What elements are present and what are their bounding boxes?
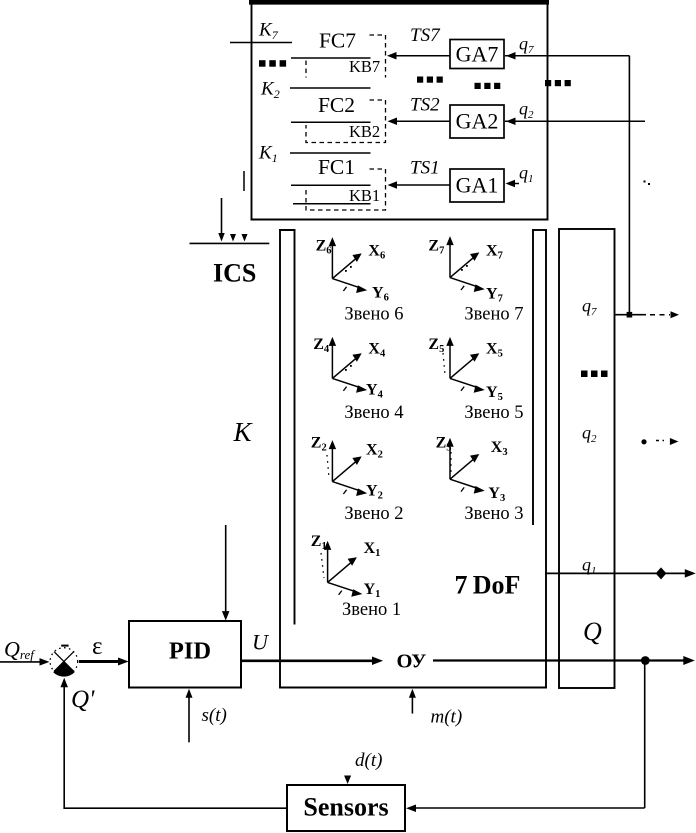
svg-text:ОУ: ОУ (397, 650, 427, 672)
specks right of q1 row (644, 181, 646, 183)
svg-text:K1: K1 (258, 143, 278, 166)
block PID (129, 621, 241, 688)
dashed box KB1 (306, 169, 386, 210)
svg-text:X5: X5 (486, 341, 503, 360)
scan artifact specks (345, 270, 347, 272)
svg-text:PID: PID (169, 637, 211, 664)
svg-text:Звено 4: Звено 4 (344, 403, 403, 423)
wire Q down to Sensors (644, 661, 646, 809)
svg-text:X4: X4 (368, 341, 386, 360)
frame axes Zveno 1 (324, 541, 363, 597)
svg-text:U: U (252, 630, 270, 655)
scan artifact dots (321, 553, 324, 578)
svg-text:Звено 3: Звено 3 (464, 504, 523, 524)
frame axes Zveno 5 (446, 337, 485, 393)
svg-text:K7: K7 (258, 20, 279, 43)
dots between GA7 and GA2 (475, 83, 481, 89)
svg-text:FC1: FC1 (318, 155, 355, 179)
svg-text:Z2: Z2 (311, 435, 327, 454)
frame axes Zveno 7 (446, 236, 485, 292)
svg-text:Звено 7: Звено 7 (464, 305, 523, 325)
wire q1 stub into GA1 (514, 183, 519, 185)
svg-text:Z4: Z4 (313, 336, 330, 355)
wire U: PID to OU (241, 659, 374, 662)
svg-text:FC2: FC2 (318, 93, 355, 117)
svg-text:KB1: KB1 (349, 186, 380, 205)
svg-text:X2: X2 (366, 442, 383, 461)
svg-text:TS7: TS7 (410, 25, 441, 46)
svg-text:Qref: Qref (4, 637, 36, 663)
dashed q2 arrow out (656, 440, 664, 442)
wire plant output Q (433, 659, 688, 661)
svg-text:KB7: KB7 (349, 57, 380, 76)
block GA1 (450, 169, 504, 202)
dashed box KB7 (370, 35, 386, 78)
svg-text:KB2: KB2 (349, 122, 380, 141)
svg-text:Y1: Y1 (364, 581, 381, 600)
block GA7 (450, 40, 504, 69)
scan artifact dots (443, 353, 445, 375)
svg-text:Sensors: Sensors (303, 793, 388, 822)
dots between TS7 and TS2 (417, 77, 423, 83)
svg-text:Звено 6: Звено 6 (344, 305, 403, 325)
svg-text:Y4: Y4 (366, 382, 384, 401)
dashed q7 arrow out (650, 314, 670, 316)
wire K2 (line under KB7) (290, 87, 371, 89)
frame axes Zveno 3 (446, 438, 485, 494)
line under FC2 (291, 121, 371, 123)
svg-text:GA2: GA2 (456, 109, 499, 134)
line under FC1 (291, 184, 371, 186)
svg-text:Z3: Z3 (436, 435, 452, 454)
svg-text:Q': Q' (71, 686, 95, 713)
svg-text:d(t): d(t) (355, 750, 382, 771)
line under FC7 (291, 57, 371, 59)
output bus box (559, 229, 615, 688)
tick mark below K1 (243, 171, 245, 191)
node Q branch dot (641, 656, 650, 665)
svg-text:Y5: Y5 (486, 384, 503, 403)
svg-text:Y3: Y3 (488, 485, 505, 504)
svg-text:Y7: Y7 (486, 286, 503, 305)
svg-text:Z7: Z7 (428, 238, 444, 257)
svg-text:GA7: GA7 (456, 42, 499, 67)
wire K down to PID (225, 525, 227, 612)
block Sensors (287, 785, 405, 831)
node q2 dot (641, 439, 646, 444)
svg-text:Z6: Z6 (316, 238, 332, 257)
wire m(t) into plant (411, 697, 413, 714)
svg-text:Y6: Y6 (372, 285, 389, 304)
svg-text:Q: Q (583, 617, 602, 646)
wire into Sensors right (415, 807, 645, 809)
svg-text:Z1: Z1 (311, 533, 327, 552)
svg-text:q1: q1 (519, 163, 534, 186)
wire q7 feedback up to GA7 (628, 56, 630, 315)
frame axes Zveno 6 (329, 237, 368, 293)
scan artifact dots (450, 452, 452, 476)
wire q1 out (545, 572, 689, 574)
wire K1 (line under KB2) (290, 152, 371, 154)
scan artifact specks (461, 269, 463, 271)
svg-text:q2: q2 (582, 423, 597, 446)
dots at right edge of box (545, 80, 551, 86)
wire s(t) into PID (188, 697, 190, 742)
svg-text:TS2: TS2 (410, 95, 440, 116)
svg-text:Звено 2: Звено 2 (344, 504, 403, 524)
dashed box KB2 (306, 100, 386, 143)
wire TS1: GA1 to KB1 (395, 184, 450, 186)
plant left channel (279, 230, 281, 688)
svg-text:GA1: GA1 (456, 173, 499, 198)
wire Sensors output left (63, 807, 287, 809)
wire TS7: GA7 to KB7 (395, 55, 450, 57)
wire Qref into summer (0, 661, 41, 663)
svg-text:Звено 5: Звено 5 (464, 403, 523, 423)
arrowheads into ICS (230, 234, 236, 242)
svg-text:K: K (233, 417, 254, 447)
wire q2 into GA2 (505, 120, 645, 122)
svg-text:Z5: Z5 (428, 336, 444, 355)
arrowhead d(t) into Sensors (344, 776, 351, 785)
line under KB1 (293, 203, 371, 205)
dots in bus (581, 371, 588, 378)
frame axes Zveno 2 (329, 440, 368, 496)
plant bottom edge (279, 687, 547, 689)
svg-text:m(t): m(t) (431, 707, 463, 728)
wire error into PID (79, 660, 120, 663)
dots below K7 (259, 60, 266, 66)
wire from bank down to ICS (221, 198, 223, 234)
minus sign at summer (61, 645, 68, 647)
wire q7 out of bus (616, 314, 647, 316)
wire K7 input (230, 42, 292, 44)
svg-text:ε: ε (92, 633, 103, 660)
summing junction (50, 648, 78, 676)
svg-text:X1: X1 (364, 540, 381, 559)
wire feedback up to summer (63, 680, 65, 808)
svg-text:FC7: FC7 (319, 29, 356, 53)
node q1 diamond (656, 567, 667, 579)
svg-text:Звено 1: Звено 1 (342, 600, 401, 620)
svg-text:X3: X3 (491, 439, 508, 458)
svg-text:X7: X7 (486, 243, 503, 262)
scan artifact dots (327, 455, 329, 478)
svg-text:TS1: TS1 (410, 158, 440, 179)
svg-text:s(t): s(t) (202, 705, 227, 726)
line over ICS (190, 242, 270, 244)
svg-text:K2: K2 (260, 79, 280, 102)
svg-text:q2: q2 (519, 99, 534, 122)
svg-text:Y2: Y2 (366, 483, 383, 502)
frame axes Zveno 4 (329, 337, 368, 393)
wire q7 into GA7 (505, 55, 630, 57)
block GA2 (450, 105, 504, 138)
svg-text:ICS: ICS (213, 259, 256, 288)
scan artifact specks (345, 369, 347, 371)
wire TS2: GA2 to KB2 (395, 120, 450, 122)
outer box: controller bank enclosure (249, 0, 549, 5)
svg-text:7 DoF: 7 DoF (455, 571, 521, 600)
svg-text:X6: X6 (368, 243, 385, 262)
svg-text:q7: q7 (582, 296, 597, 319)
svg-text:q7: q7 (519, 34, 534, 57)
plant right channel (532, 230, 534, 525)
